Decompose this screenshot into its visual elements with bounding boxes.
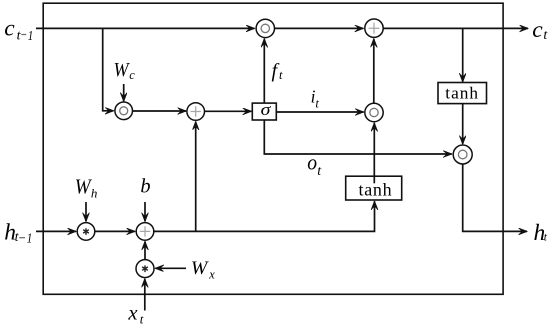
wire O4 down then right to output h_t — [463, 164, 527, 231]
wire branch down from c-line at x=102.7 to hadamard O2 — [103, 28, 114, 110]
hadamard operator O3 — [365, 103, 383, 121]
wire M1 to adder P3 — [95, 230, 135, 232]
wire P2 to sigma box — [205, 110, 252, 112]
svg-text:h: h — [91, 185, 98, 200]
wire P1 to output c_t — [383, 27, 528, 29]
wire T2 up to O3 — [373, 123, 375, 183]
hadamard operator O2 — [115, 102, 133, 120]
node c_{t-1} label — [4, 16, 33, 44]
wire O1 to adder P1 — [275, 27, 364, 29]
svg-text:c: c — [532, 17, 543, 43]
multiplier operator M2 — [136, 260, 154, 278]
adder P2 — [187, 103, 205, 121]
wire W_x left into M2 — [155, 267, 186, 269]
wire W_c down into O2 — [123, 84, 125, 101]
tanh box T1 — [438, 83, 487, 104]
svg-text:b: b — [140, 176, 150, 198]
svg-text:x: x — [208, 268, 215, 282]
svg-text:t: t — [279, 68, 283, 82]
svg-text:W: W — [75, 177, 92, 199]
node h_{t-1} label — [4, 220, 32, 247]
label W_c — [114, 59, 136, 82]
svg-text:x: x — [127, 303, 137, 325]
hadamard operator O1 — [256, 19, 274, 37]
label i_t — [311, 86, 320, 110]
adder P3 — [136, 223, 154, 241]
wire sigma right to hadamard O3 (i_t) — [276, 111, 363, 113]
wire P3 right then up into tanh box T2 — [154, 201, 375, 231]
svg-text:1: 1 — [28, 29, 34, 44]
wire c_{t-1} to hadamard O1 — [36, 27, 255, 29]
wire sigma down then right to O4 (o_t) — [264, 120, 451, 154]
wire b down into P3 — [144, 202, 146, 221]
node c_t label — [532, 17, 548, 43]
sigma gate box U1 — [252, 100, 276, 120]
wire M2 up to P3 — [144, 242, 146, 260]
svg-text:t: t — [140, 312, 144, 326]
wire h_{t-1} to multiplier M1 — [36, 230, 76, 232]
label o_t — [307, 150, 322, 179]
multiplier operator M1 — [77, 223, 95, 241]
svg-text:c: c — [4, 16, 15, 42]
hadamard operator O4 — [453, 145, 472, 164]
svg-text:t: t — [315, 96, 319, 110]
svg-text:tanh: tanh — [445, 84, 479, 103]
tanh box T2 — [346, 176, 402, 200]
svg-text:o: o — [307, 150, 317, 175]
wire branch down from c-line at x=462.7 into tanh box T1 — [462, 28, 464, 81]
wire W_h down into M1 — [85, 202, 87, 221]
wire T1 down into O4 — [462, 104, 464, 144]
label W_h — [75, 177, 98, 201]
label W_x — [191, 258, 215, 282]
wire branch up from h-line at x=195.7 to adder P2 — [195, 122, 197, 232]
wire O3 up to adder P1 — [373, 39, 375, 104]
outer border frame of LSTM cell — [43, 3, 503, 294]
adder P1 — [365, 19, 383, 37]
label f_t — [272, 60, 284, 82]
wire O2 to adder P2 — [133, 110, 187, 112]
node x_t label — [127, 303, 143, 326]
svg-text:W: W — [114, 59, 131, 81]
svg-text:1: 1 — [27, 231, 33, 246]
svg-text:tanh: tanh — [359, 179, 393, 199]
node h_t label — [534, 220, 548, 246]
wire sigma up to O1 (f_t) — [263, 39, 265, 103]
wire x_t up into M2 — [144, 279, 146, 311]
svg-text:c: c — [129, 68, 135, 82]
svg-text:W: W — [191, 258, 209, 279]
svg-text:σ: σ — [261, 100, 272, 119]
